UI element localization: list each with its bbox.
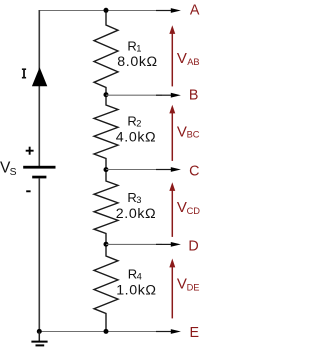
svg-text:D: D [188, 239, 198, 255]
battery plus sign [26, 150, 34, 152]
svg-text:C: C [189, 164, 199, 180]
wire node A arrow shaft [156, 10, 172, 12]
svg-text:A: A [190, 3, 200, 19]
current label I [22, 68, 26, 70]
svg-text:AB: AB [187, 57, 199, 67]
wire node D [106, 243, 162, 245]
svg-text:V: V [177, 199, 187, 216]
node D junction dot [104, 242, 109, 247]
voltage arrow V_BC [171, 113, 173, 161]
voltage arrow V_CD [171, 190, 173, 237]
current arrow I [32, 67, 47, 86]
node E arrowhead [171, 329, 181, 334]
ground junction dot [37, 329, 42, 334]
svg-text:8.0kΩ: 8.0kΩ [117, 54, 157, 70]
wire node E arrow shaft [156, 331, 172, 333]
svg-text:3: 3 [136, 195, 141, 205]
wire bottom (node E row) [39, 331, 162, 333]
node D arrowhead [171, 242, 181, 247]
ground [38, 331, 40, 341]
svg-text:V: V [177, 50, 187, 67]
wire top rail horizontal (node A row) [39, 10, 162, 12]
svg-text:BC: BC [187, 130, 200, 140]
svg-text:1.0kΩ: 1.0kΩ [116, 282, 156, 298]
svg-text:CD: CD [187, 206, 201, 216]
node C junction dot [104, 167, 109, 172]
svg-text:4.0kΩ: 4.0kΩ [116, 129, 156, 145]
voltage arrow V_DE [171, 267, 173, 319]
svg-text:4: 4 [137, 272, 142, 282]
svg-text:V: V [177, 275, 187, 292]
wire left rail lower [38, 178, 40, 331]
node B arrowhead [171, 93, 181, 98]
node A arrowhead [171, 8, 181, 13]
battery VS short plate [32, 176, 46, 179]
resistor R1 [94, 10, 118, 94]
svg-text:DE: DE [187, 282, 200, 292]
wire left rail upper [38, 10, 40, 166]
battery minus sign [26, 190, 30, 192]
resistor R2 [94, 95, 118, 170]
svg-text:E: E [190, 325, 200, 341]
resistor R3 [94, 170, 118, 245]
wire node B [106, 94, 162, 96]
svg-text:2: 2 [136, 119, 141, 129]
node E junction dot [104, 329, 109, 334]
voltage arrow V_AB [171, 33, 173, 86]
wire node C [106, 169, 162, 171]
node A junction dot [104, 8, 109, 13]
svg-text:B: B [189, 88, 199, 104]
svg-text:V: V [177, 123, 187, 140]
svg-text:S: S [10, 167, 17, 178]
svg-text:2.0kΩ: 2.0kΩ [116, 206, 156, 222]
node C arrowhead [171, 167, 181, 172]
resistor R4 [94, 244, 118, 331]
battery VS long plate [23, 166, 55, 169]
svg-text:1: 1 [136, 44, 141, 54]
node B junction dot [104, 92, 109, 97]
